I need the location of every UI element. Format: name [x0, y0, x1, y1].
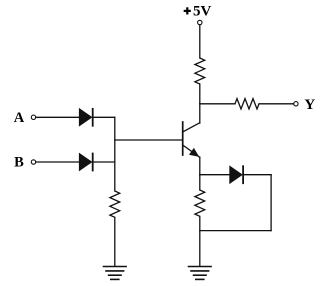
terminal B [31, 160, 35, 164]
transistor Q1 [183, 122, 200, 157]
terminal +5V [198, 20, 202, 24]
wire Q1 emitter to emitter node [199, 157, 201, 174]
ground (input bus) [104, 267, 127, 280]
wire input bus vertical [114, 117, 116, 191]
wire R1 to collector node [199, 84, 201, 104]
wire D3 to right corner [244, 174, 271, 176]
wire base stub [115, 139, 182, 141]
wire +5V terminal to R1 [199, 25, 201, 58]
diode D3 (emitter clamp) [230, 165, 244, 184]
wire R2 to terminal Y [259, 103, 294, 105]
terminal A [31, 115, 35, 119]
terminal Y [294, 102, 298, 106]
wire R4 to ground [114, 217, 116, 266]
wire terminal A to D1 [36, 116, 79, 118]
resistor R4 (bus pull-down) [110, 191, 120, 217]
wire D1 to input bus [94, 116, 115, 118]
wire R3 to ground [199, 216, 201, 266]
wire D2 to input bus [94, 161, 115, 163]
wire right side vertical [270, 175, 272, 231]
svg-text:Y: Y [304, 97, 315, 113]
wire terminal B to D2 [36, 161, 79, 163]
ground (emitter) [189, 267, 212, 280]
resistor R3 (emitter) [195, 190, 205, 216]
svg-text:B: B [14, 154, 24, 170]
diode D2 (input B) [79, 153, 93, 172]
wire emitter node to R3 [199, 175, 201, 190]
diode D1 (input A) [79, 108, 93, 127]
label +5V [184, 4, 212, 20]
wire collector node to R2 [200, 103, 235, 105]
svg-text:5V: 5V [193, 4, 212, 20]
wire emitter node to D3 [200, 174, 230, 176]
resistor R2 (output series) [235, 99, 259, 109]
wire collector node down to Q1 collector [199, 104, 201, 123]
resistor R1 (collector pull-up) [195, 58, 205, 84]
svg-text:A: A [14, 110, 25, 126]
wire bottom return [200, 230, 271, 232]
